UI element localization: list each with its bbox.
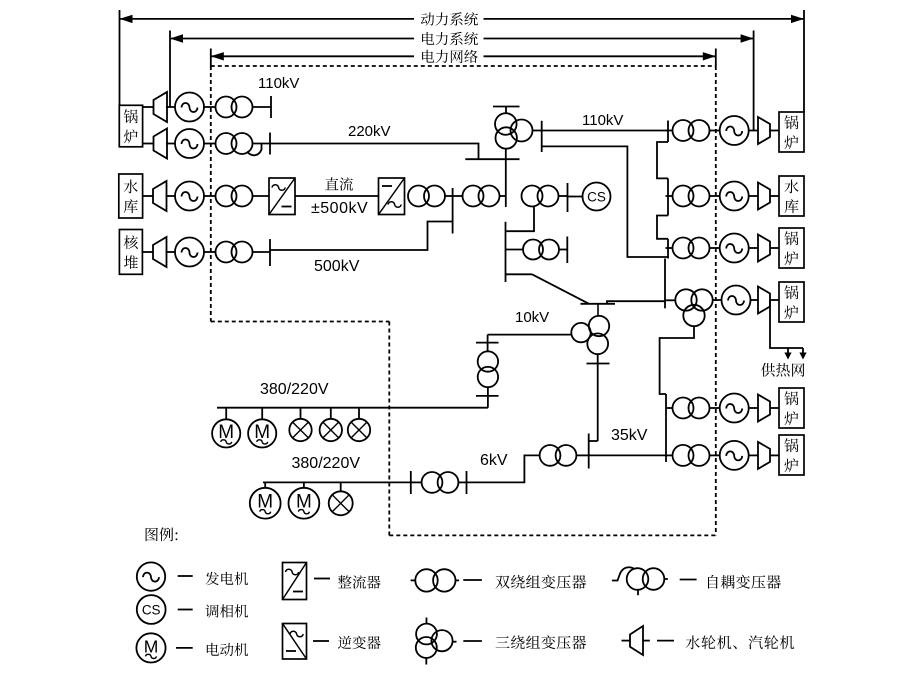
- label 动力系统: [421, 12, 478, 25]
- box 锅炉 R4: [779, 282, 804, 322]
- wire feeder to 10kV: [506, 274, 590, 304]
- wire 10kV down feeder: [589, 354, 598, 441]
- dashed boundary right: [715, 66, 717, 535]
- svg-text:380/220V: 380/220V: [292, 455, 361, 472]
- wire R3 transformer-gen: [710, 247, 720, 249]
- label 水轮机、汽轮机: [686, 635, 794, 649]
- generator G R6: [720, 441, 749, 470]
- label 自耦变压器: [708, 575, 781, 589]
- bus top bar of 3W transformer: [493, 107, 520, 114]
- bus 220kV tick: [269, 133, 271, 155]
- svg-text:110kV: 110kV: [258, 75, 299, 92]
- svg-text:M: M: [144, 636, 159, 656]
- legend generator symbol: [137, 562, 165, 590]
- three-winding transformer 220/110: [495, 113, 533, 149]
- box 锅炉 R1: [779, 112, 804, 152]
- turbine R2: [758, 183, 770, 210]
- bus tick below 10kV transformer: [587, 363, 610, 365]
- bus right tick R1: [667, 121, 669, 143]
- svg-text:6kV: 6kV: [480, 452, 508, 469]
- arrow 电力网络 (network span): [211, 52, 716, 60]
- box 锅炉 R5: [779, 388, 804, 428]
- wire R1 bus-transformer: [666, 130, 673, 132]
- wire bus-CS: [568, 196, 583, 198]
- arrow heating 2: [799, 348, 806, 360]
- wire R3 gen-turbine: [749, 247, 758, 249]
- bus 380/220V no.1: [217, 407, 488, 409]
- dashed boundary bottom: [389, 534, 716, 536]
- wire to 500kV bus: [446, 195, 453, 197]
- wire R1 transformer-gen: [710, 130, 720, 132]
- svg-text:M: M: [254, 422, 270, 443]
- transformer 10kV/380V vertical: [478, 351, 498, 387]
- wire 动力系统 right vertical: [803, 10, 805, 113]
- wire R6 gen-turbine: [749, 454, 758, 456]
- generator G R1: [720, 116, 749, 145]
- wire R3 bus-transformer: [666, 247, 673, 249]
- wire R4 turbine-box: [770, 299, 779, 301]
- wire 220kV line: [270, 144, 479, 160]
- wire to vertical bus: [500, 195, 506, 197]
- turbine R4: [758, 287, 770, 314]
- wire R2 transformer-gen: [710, 195, 720, 197]
- bus 10kV bar: [581, 303, 616, 305]
- legend turbine symbol: [622, 626, 650, 655]
- inverter U2: [379, 178, 405, 215]
- wire trunk R3-R4: [664, 259, 666, 309]
- legend generator dash: [178, 575, 193, 577]
- wire R6 turbine-box: [770, 454, 779, 456]
- label 供热网: [761, 363, 805, 377]
- svg-text:M: M: [218, 422, 234, 443]
- legend 3W dash: [463, 640, 482, 642]
- svg-text:220kV: 220kV: [348, 123, 391, 140]
- bus CS tick: [567, 183, 569, 212]
- motor M3: [250, 482, 281, 518]
- dashed boundary left: [210, 66, 212, 322]
- lamp load L3: [348, 408, 370, 441]
- box 锅炉 R6: [779, 435, 804, 475]
- dashed boundary step: [211, 321, 389, 323]
- arrow 动力系统 (power system span): [120, 15, 805, 23]
- box 水库 R2: [779, 176, 804, 216]
- wire row2 turbine-gen: [166, 143, 175, 145]
- label 调相机: [205, 604, 248, 617]
- transformer R6: [673, 445, 710, 466]
- transformer row1 (two-winding): [216, 97, 253, 118]
- wire transformer-tick: [458, 481, 466, 483]
- wire trunk R5-R6: [665, 416, 667, 462]
- turbine R1: [758, 117, 770, 144]
- turbine row1: [154, 92, 168, 122]
- bus 110kV tick: [541, 121, 543, 152]
- wire 电力网络 right stub: [715, 49, 717, 67]
- wire row1 box-turbine: [143, 106, 154, 108]
- label 220kV: [348, 123, 391, 140]
- synchronous condenser CS: [583, 183, 611, 211]
- wire row3 to rectifier: [253, 195, 270, 197]
- turbine row4: [153, 237, 167, 267]
- generator G R5: [720, 394, 749, 423]
- wire DC line: [295, 195, 379, 197]
- svg-text:M: M: [296, 492, 312, 513]
- transformer after inverter: [408, 186, 445, 207]
- wire row1 to bus: [253, 106, 272, 108]
- wire 110kV line: [542, 130, 668, 132]
- legend 2W dash: [463, 579, 482, 581]
- label 三绕组变压器: [496, 635, 587, 649]
- bus right tick R3: [667, 239, 669, 259]
- wire 10kV bus to right trunk: [607, 301, 665, 304]
- label 双绕组变压器: [496, 575, 587, 589]
- svg-text:500kV: 500kV: [314, 258, 360, 275]
- wire 动力系统 left vertical: [119, 10, 121, 105]
- wire 500kV line: [270, 222, 453, 251]
- bus 380/220V no.2: [263, 481, 411, 483]
- motor M2: [248, 408, 276, 448]
- legend autotransformer symbol: [612, 567, 668, 595]
- bus 500kV line tick: [269, 239, 271, 266]
- transformer row4: [216, 242, 253, 263]
- wire row4 box-turbine: [142, 251, 153, 253]
- turbine R5: [758, 395, 770, 422]
- wire to 35kV bus: [576, 454, 588, 456]
- legend rectifier symbol: [283, 563, 307, 600]
- bus 220kV station bar: [465, 158, 519, 160]
- bus distribution tick top: [476, 342, 499, 344]
- arrow heating 1: [784, 348, 791, 360]
- lamp load L2: [320, 408, 342, 441]
- bus 35kV tick: [588, 434, 590, 469]
- wire R5 turbine-box: [770, 407, 779, 409]
- wire heating network drop: [770, 300, 803, 348]
- legend motor symbol: [136, 633, 165, 662]
- bus 500kV tick: [452, 188, 454, 234]
- wire station transformer drop: [506, 207, 534, 232]
- legend autotransformer dash: [680, 579, 697, 581]
- motor M1: [212, 408, 240, 448]
- rectifier U1: [269, 178, 295, 215]
- bus distribution tick bottom: [476, 395, 499, 397]
- wire R5 gen-turbine: [749, 407, 758, 409]
- wire row2 box-turbine: [143, 143, 154, 145]
- wire row3 gen-transformer: [204, 195, 216, 197]
- bus right tick R2: [667, 178, 669, 215]
- transformer 220 station: [522, 186, 559, 207]
- generator G R3: [720, 234, 749, 263]
- bus reserve tick: [566, 237, 568, 264]
- turbine row3 (hydro): [153, 181, 167, 211]
- wire row1 turbine-gen: [166, 106, 175, 108]
- turbine R3: [758, 235, 770, 262]
- label 110kV left: [258, 75, 299, 92]
- wire R1 gen-turbine: [749, 130, 758, 132]
- label 110kV right: [582, 112, 623, 129]
- wire R6 bus-transformer: [666, 454, 673, 456]
- box 水库 (reservoir): [119, 174, 143, 218]
- wire bus-reserve transformer: [506, 249, 523, 251]
- wire R4 bus-transformer: [665, 299, 675, 301]
- wire 110kV second feeder: [542, 146, 668, 257]
- legend inverter symbol: [283, 624, 307, 660]
- wire 3W to 110kV bus: [533, 130, 542, 132]
- three-winding transformer R4: [675, 289, 712, 326]
- box 锅炉 (boiler, rows 1-2): [119, 105, 142, 147]
- transformer 500/220: [463, 186, 500, 207]
- legend rectifier dash: [314, 578, 330, 580]
- wire R4 drop to 35kV trunk: [660, 326, 694, 394]
- wire reserve to tick: [559, 249, 567, 251]
- label 6kV: [480, 452, 508, 469]
- transformer 6kV/35kV: [540, 445, 577, 466]
- svg-text:10kV: 10kV: [515, 309, 549, 326]
- generator G row2: [175, 129, 204, 158]
- wire 3W bottom stub: [505, 149, 507, 207]
- lamp load L4: [329, 482, 353, 515]
- svg-text:CS: CS: [142, 603, 161, 618]
- bus 6kV tick left: [410, 471, 412, 494]
- legend CS dash: [178, 609, 193, 611]
- turbine R6: [758, 442, 770, 469]
- label 直流: [325, 177, 353, 191]
- label 电力系统: [422, 32, 478, 45]
- label 35kV: [611, 427, 648, 444]
- svg-text:CS: CS: [587, 190, 606, 205]
- transformer 6kV/380V: [422, 472, 459, 493]
- wire R4 transformer-gen: [713, 299, 722, 301]
- wire R3 turbine-box: [770, 247, 779, 249]
- motor M4: [289, 482, 320, 518]
- label 图例: [146, 527, 178, 541]
- generator G R4: [722, 286, 751, 315]
- lamp load L1: [289, 408, 311, 441]
- wire 35kV line: [589, 454, 666, 456]
- wire R6 transformer-gen: [710, 454, 720, 456]
- autotransformer row2: [216, 133, 262, 155]
- wire 电力系统 left vertical: [169, 31, 171, 108]
- label 380/220V no.2: [292, 455, 361, 472]
- svg-text:±500kV: ±500kV: [311, 200, 368, 217]
- wire row4 to bus: [253, 251, 271, 253]
- bus 6kV tick right: [466, 471, 468, 494]
- label 电力网络: [422, 50, 478, 63]
- label 500kV: [314, 258, 360, 275]
- dashed boundary left lower: [388, 322, 390, 536]
- label 电动机: [207, 643, 248, 656]
- wire row4 turbine-gen: [166, 251, 176, 253]
- wire row2 gen-transformer: [204, 143, 216, 145]
- wire tick-transformer: [411, 481, 422, 483]
- label 10kV: [515, 309, 549, 326]
- three-winding transformer 10kV: [571, 304, 609, 354]
- turbine row2: [154, 129, 168, 159]
- svg-text:110kV: 110kV: [582, 112, 623, 129]
- transformer R2: [673, 186, 710, 207]
- legend two-winding transformer symbol: [411, 569, 459, 591]
- wire 10kV to distribution transformer: [488, 335, 572, 352]
- label 整流器: [338, 575, 381, 589]
- label ±500kV: [311, 200, 368, 217]
- wire to CS bus: [559, 195, 568, 197]
- wire R2 bus-transformer: [666, 195, 673, 197]
- generator G row3: [175, 182, 204, 211]
- legend turbine dash: [657, 640, 674, 642]
- transformer row3: [216, 186, 253, 207]
- wire bus-transformer: [453, 195, 463, 197]
- legend CS symbol: [137, 595, 166, 624]
- wire R5 bus-transformer: [666, 407, 673, 409]
- wire R4 gen-turbine: [751, 299, 759, 301]
- transformer R5: [673, 398, 710, 419]
- transformer reserve: [523, 240, 559, 260]
- legend inverter dash: [313, 640, 329, 642]
- wire row3 turbine-gen: [166, 195, 176, 197]
- generator G R2: [720, 182, 749, 211]
- wire 6kV riser: [467, 455, 540, 482]
- arrow 电力系统 (electric system span): [170, 34, 754, 42]
- wire R2 turbine-box: [770, 195, 779, 197]
- transformer R1: [673, 120, 710, 141]
- wire row2 to bus: [253, 143, 271, 145]
- bus 110kV row1 tick: [270, 96, 272, 118]
- bus mid vertical: [505, 222, 507, 282]
- generator G row1: [175, 93, 204, 122]
- legend motor dash: [176, 647, 193, 649]
- label 380/220V no.1: [260, 381, 329, 398]
- wire row4 gen-transformer: [204, 251, 216, 253]
- box 锅炉 R3: [779, 228, 804, 268]
- wire R1 turbine-box: [770, 130, 779, 132]
- wire 电力网络 left stub: [210, 49, 212, 67]
- svg-text:380/220V: 380/220V: [260, 381, 329, 398]
- generator G row4: [175, 238, 204, 267]
- label 发电机: [205, 572, 248, 586]
- wire trunk R2-R3: [657, 216, 668, 239]
- transformer R3: [673, 238, 710, 259]
- wire R5 transformer-gen: [710, 407, 720, 409]
- legend three-winding transformer symbol: [416, 618, 457, 665]
- wire transformer to LV bus: [487, 387, 489, 408]
- svg-text:35kV: 35kV: [611, 427, 648, 444]
- wire row1 gen-transformer: [204, 106, 216, 108]
- svg-text:M: M: [257, 492, 273, 513]
- wire 电力系统 right vertical: [753, 31, 755, 131]
- wire R2 gen-turbine: [749, 195, 758, 197]
- label 逆变器: [338, 636, 381, 650]
- wire row3 box-turbine: [143, 195, 153, 197]
- box 核堆 (nuclear reactor): [119, 230, 142, 275]
- wire trunk R1-R2: [657, 142, 668, 178]
- bus right tick R5: [665, 394, 667, 416]
- dashed boundary top: [211, 65, 716, 67]
